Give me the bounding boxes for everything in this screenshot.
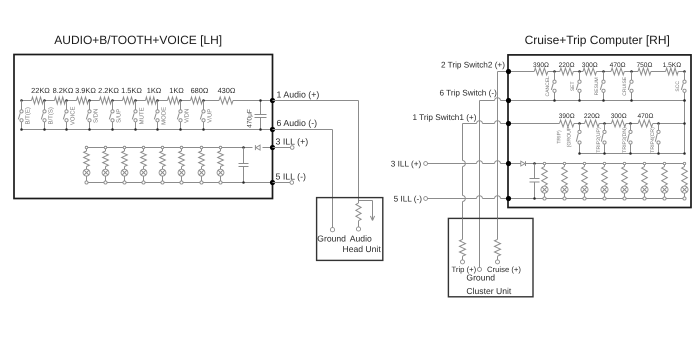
svg-text:220Ω: 220Ω — [584, 113, 600, 120]
connector contact bottom 5 — [161, 181, 164, 184]
cruise illumination LED branch 7 — [661, 164, 668, 199]
svg-text:Audio: Audio — [350, 233, 372, 243]
wire trip return vertical — [684, 101, 686, 154]
resistor 220ohm cruise row — [559, 62, 575, 75]
connector contact top 5 — [161, 146, 164, 149]
illumination LED branch 8 (resistor + bulb) — [217, 148, 224, 183]
resistor cruise signal pull-up — [495, 218, 501, 264]
svg-text:430Ω: 430Ω — [218, 86, 236, 95]
svg-text:1KΩ: 1KΩ — [147, 86, 162, 95]
node audio ladder return 8 — [179, 128, 182, 131]
svg-text:390Ω: 390Ω — [533, 62, 549, 69]
switch CRUISE — [622, 72, 633, 101]
svg-text:2.2KΩ: 2.2KΩ — [98, 86, 119, 95]
illumination LED branch 5 (resistor + bulb) — [159, 148, 166, 183]
node cruise ladder 1 — [553, 70, 556, 73]
svg-text:470Ω: 470Ω — [610, 62, 626, 69]
resistor 390ohm cruise row — [533, 62, 549, 75]
label Ground (cluster) — [466, 272, 495, 282]
connector contact bottom 4 — [142, 181, 145, 184]
switch trip 1 — [556, 124, 581, 154]
cruise connector contact top 3 — [583, 162, 585, 164]
node trip return 3 — [629, 152, 632, 155]
cruise connector contact bottom 2 — [563, 197, 566, 200]
cruise and trip computer switch box [RH] — [508, 55, 691, 208]
switch SCC — [675, 72, 686, 101]
svg-text:SET: SET — [570, 81, 576, 91]
title Cruise+Trip Computer [RH] — [525, 33, 670, 47]
cruise connector contact top 5 — [623, 162, 625, 164]
node cruise return 2 — [578, 99, 581, 102]
svg-text:220Ω: 220Ω — [559, 62, 575, 69]
svg-text:22KΩ: 22KΩ — [31, 86, 50, 95]
svg-text:470μF: 470μF — [247, 109, 254, 128]
label Cluster Unit — [466, 286, 512, 296]
connector contact bottom 6 — [180, 181, 183, 184]
cruise connector contact bottom 6 — [643, 197, 646, 200]
label Trip (+) — [452, 265, 477, 274]
svg-text:3 ILL (+): 3 ILL (+) — [276, 137, 309, 147]
svg-text:S/DN: S/DN — [93, 109, 100, 123]
pin 3 ILL (+) — [270, 137, 308, 150]
illumination LED branch 6 (resistor + bulb) — [178, 148, 185, 183]
cruise connector contact top 7 — [663, 162, 665, 164]
svg-text:V/DN: V/DN — [184, 109, 191, 123]
cruise illumination LED branch 2 — [561, 164, 568, 199]
resistor 470ohm trip row — [637, 113, 653, 127]
svg-text:AUDIO+B/TOOTH+VOICE [LH]: AUDIO+B/TOOTH+VOICE [LH] — [54, 33, 222, 47]
resistor 390ohm trip row — [559, 113, 575, 127]
illumination LED branch 2 (resistor + bulb) — [102, 148, 109, 183]
title AUDIO+B/TOOTH+VOICE [LH] — [54, 33, 222, 47]
connector contact top 2 — [104, 146, 107, 149]
svg-text:470Ω: 470Ω — [637, 113, 653, 120]
node audio ladder junction 1 — [20, 99, 23, 102]
node cruise ladder 5 — [683, 70, 686, 73]
connector contact bottom 7 — [200, 181, 203, 184]
head unit box — [317, 198, 383, 261]
node audio ladder junction 4 — [88, 99, 91, 102]
node cruise ladder 3 — [602, 70, 605, 73]
diode D2 illumination — [521, 161, 526, 166]
label Cruise (+) — [487, 265, 521, 274]
resistor 220ohm trip row — [584, 113, 600, 127]
node audio ladder return 6 — [134, 128, 137, 131]
cruise connector contact top 1 — [543, 162, 545, 164]
resistor 8.2Kohm — [53, 86, 74, 104]
switch MODE — [154, 101, 167, 130]
svg-text:TRIP3(DN): TRIP3(DN) — [622, 127, 628, 153]
node audio ladder junction 3 — [65, 99, 68, 102]
node trip ladder 3 — [629, 122, 632, 125]
wire audio (+) from pin 1 to head unit — [273, 101, 359, 204]
connector contact bottom 3 — [123, 181, 126, 184]
illumination LED branch 3 (resistor + bulb) — [121, 148, 128, 183]
svg-text:MODE: MODE — [161, 107, 168, 125]
pin 1 trip switch1 (+) on cruise box — [506, 121, 511, 126]
resistor 1.5Kohm cruise row — [663, 62, 682, 75]
wire cruise ladder top rail — [509, 71, 685, 73]
switch V/UP — [200, 101, 213, 130]
node cruise return 5 — [683, 99, 686, 102]
node trip ladder 2 — [603, 122, 606, 125]
resistor 1Kohm — [146, 86, 162, 104]
connector contact top 1 — [85, 146, 88, 149]
resistor in head unit (audio input load) — [350, 203, 372, 243]
cluster unit box — [448, 218, 533, 296]
switch B/T(S) — [41, 101, 54, 130]
connector contact top 3 — [123, 146, 126, 149]
cruise connector contact top 6 — [643, 162, 645, 164]
node trip return rail junction — [683, 99, 686, 155]
connector contact top 7 — [200, 146, 203, 149]
node trip ladder 4 — [657, 122, 660, 125]
illumination LED branch 7 (resistor + bulb) — [198, 148, 205, 183]
arrow adjustable marker in head unit — [359, 201, 375, 221]
svg-text:B/T(S): B/T(S) — [48, 107, 55, 124]
switch B/T(E) — [18, 101, 31, 130]
svg-text:6 Audio (-): 6 Audio (-) — [277, 118, 318, 128]
resistor 2.2Kohm — [98, 86, 119, 104]
wire audio resistor ladder top rail — [22, 100, 273, 102]
node illumination capacitor tap — [242, 146, 245, 149]
svg-text:1KΩ: 1KΩ — [169, 86, 184, 95]
pin 2 trip switch2 (+) on cruise box — [506, 69, 511, 74]
node cruise ladder 4 — [630, 70, 633, 73]
svg-text:Cluster Unit: Cluster Unit — [466, 286, 512, 296]
resistor 22Kohm — [31, 86, 50, 104]
resistor 1.5Kohm — [121, 86, 142, 104]
svg-text:1 Audio (+): 1 Audio (+) — [277, 90, 320, 100]
label Head Unit — [343, 244, 382, 254]
svg-text:MUTE: MUTE — [139, 107, 146, 124]
svg-text:8.2KΩ: 8.2KΩ — [53, 86, 74, 95]
switch VOICE — [63, 101, 76, 130]
svg-text:SCC: SCC — [675, 81, 681, 92]
capacitor C3 cruise illumination — [530, 164, 540, 200]
pin 6 trip switch (-) on cruise box — [506, 98, 511, 103]
node audio ladder return 9 — [202, 128, 205, 131]
node trip return 2 — [603, 152, 606, 155]
resistor 1Kohm — [168, 86, 185, 104]
wire trip switch1 (+) net — [463, 121, 509, 219]
svg-text:B/T(E): B/T(E) — [25, 107, 32, 124]
svg-text:Ground: Ground — [466, 272, 495, 282]
wire trip ladder bottom rail — [580, 153, 685, 155]
node audio ladder return 2 — [43, 128, 46, 131]
svg-text:S/UP: S/UP — [116, 109, 123, 123]
wire audio (-) from pin 6 to head unit ground — [273, 130, 333, 228]
node audio ladder return 3 — [65, 128, 68, 131]
wire cruise illumination bottom rail — [509, 198, 685, 200]
svg-text:(GROUP: (GROUP — [566, 126, 572, 147]
svg-text:390Ω: 390Ω — [559, 113, 575, 120]
node audio ladder junction 5 — [111, 99, 114, 102]
svg-text:CANCEL: CANCEL — [545, 76, 551, 97]
node audio ladder return 7 — [156, 128, 159, 131]
cruise connector contact top 2 — [563, 162, 565, 164]
node trip return 1 — [578, 152, 581, 155]
pin 6 Audio (-) — [270, 118, 317, 132]
switch trip 2 — [596, 124, 606, 154]
cruise illumination LED branch 5 — [621, 164, 628, 199]
switch RESUM — [594, 72, 605, 101]
cruise connector contact bottom 1 — [543, 197, 546, 200]
connector contact top 4 — [142, 146, 145, 149]
svg-text:Cruise+Trip Computer [RH]: Cruise+Trip Computer [RH] — [525, 33, 670, 47]
wire illumination top rail — [87, 147, 273, 149]
cruise connector contact bottom 7 — [663, 197, 666, 200]
label 2 Trip Switch2 (+) — [441, 60, 505, 69]
switch trip 4 — [650, 124, 660, 154]
cruise illumination LED branch 4 — [601, 164, 608, 199]
pin 1 Audio (+) — [270, 90, 319, 104]
cruise connector contact bottom 3 — [583, 197, 586, 200]
node cruise ladder 2 — [578, 70, 581, 73]
wire ILL (+) to cruise box — [428, 161, 509, 164]
node cruise return 4 — [630, 99, 633, 102]
wire cruise illumination top rail — [509, 163, 685, 165]
node cruise return 1 — [553, 99, 556, 102]
svg-text:5 ILL (-): 5 ILL (-) — [276, 171, 307, 181]
wire illumination bottom rail — [87, 182, 273, 184]
cruise connector contact bottom 5 — [623, 197, 626, 200]
resistor 680ohm — [191, 86, 209, 104]
cruise connector contact top 8 — [683, 162, 685, 164]
svg-text:1 Trip Switch1 (+): 1 Trip Switch1 (+) — [413, 113, 477, 122]
connector contact bottom 8 — [219, 181, 222, 184]
svg-text:3.9KΩ: 3.9KΩ — [75, 86, 96, 95]
svg-text:CRUISE: CRUISE — [622, 76, 628, 96]
pin 5 ILL (-) on cruise box — [506, 196, 511, 201]
svg-text:V/UP: V/UP — [207, 109, 214, 123]
capacitor C1 470uF — [247, 99, 267, 131]
wire cruise ladder bottom rail (trip switch -) — [509, 100, 685, 102]
illumination LED branch 4 (resistor + bulb) — [140, 148, 147, 183]
cruise illumination LED branch 6 — [641, 164, 648, 199]
cruise illumination LED branch 8 — [681, 164, 688, 199]
svg-text:VOICE: VOICE — [70, 106, 77, 125]
wire trip switch2 (+) net — [498, 72, 509, 219]
switch SET — [570, 72, 581, 101]
resistor trip signal pull-up — [460, 218, 466, 264]
connector 5 ILL (-) right — [394, 194, 428, 203]
svg-text:TRIP4(CR): TRIP4(CR) — [650, 127, 656, 153]
illumination LED branch 1 (resistor + bulb) — [83, 148, 90, 183]
wire trip switch (-) net — [480, 98, 509, 268]
node audio ladder junction 7 — [156, 99, 159, 102]
label 1 Trip Switch1 (+) — [413, 113, 477, 122]
resistor 300ohm cruise row — [582, 62, 598, 75]
switch S/UP — [109, 101, 122, 130]
wire ILL (-) to cruise box — [428, 196, 509, 199]
switch MUTE — [132, 101, 145, 130]
svg-text:1.5KΩ: 1.5KΩ — [663, 62, 682, 69]
connector contact top 6 — [180, 146, 183, 149]
ground terminal in head unit — [317, 228, 346, 244]
svg-text:300Ω: 300Ω — [582, 62, 598, 69]
svg-text:Ground: Ground — [317, 233, 346, 243]
svg-text:6 Trip Switch (-): 6 Trip Switch (-) — [440, 89, 498, 98]
node trip ladder 1 — [578, 122, 581, 125]
node audio ladder junction 6 — [134, 99, 137, 102]
node audio ladder return 1 — [20, 128, 23, 131]
connector contact bottom 1 — [85, 181, 88, 184]
cruise illumination LED branch 1 — [541, 164, 548, 199]
svg-text:Cruise (+): Cruise (+) — [487, 265, 521, 274]
switch CANCEL — [545, 72, 556, 101]
svg-text:Head Unit: Head Unit — [343, 244, 382, 254]
svg-text:3 ILL (+): 3 ILL (+) — [391, 160, 422, 169]
svg-text:TRIP): TRIP) — [556, 130, 562, 144]
pin 5 ILL (-) — [270, 171, 306, 185]
svg-text:680Ω: 680Ω — [191, 86, 209, 95]
svg-text:750Ω: 750Ω — [636, 62, 652, 69]
cruise connector contact bottom 8 — [683, 197, 686, 200]
node audio ladder junction 8 — [179, 99, 182, 102]
cruise illumination LED branch 3 — [581, 164, 588, 199]
resistor 430ohm — [218, 86, 236, 104]
resistor 470ohm cruise row — [610, 62, 626, 75]
svg-text:1.5KΩ: 1.5KΩ — [121, 86, 142, 95]
cruise connector contact top 4 — [603, 162, 605, 164]
diode D1 illumination — [255, 145, 260, 150]
node audio ladder return 5 — [111, 128, 114, 131]
resistor 3.9Kohm — [75, 86, 96, 104]
svg-text:TRIP2(UP): TRIP2(UP) — [596, 127, 602, 153]
svg-text:RESUM: RESUM — [594, 77, 600, 95]
pin 3 ILL (+) on cruise box — [506, 161, 511, 166]
svg-text:5 ILL (-): 5 ILL (-) — [394, 194, 423, 203]
connector contact top 8 — [219, 146, 222, 149]
node audio ladder junction 2 — [43, 99, 46, 102]
svg-text:2 Trip Switch2 (+): 2 Trip Switch2 (+) — [441, 60, 505, 69]
steering wheel remote controller box AUDIO+B/TOOTH+VOICE [LH] — [14, 55, 273, 199]
connector contact bottom 2 — [104, 181, 107, 184]
node audio ladder return 4 — [88, 128, 91, 131]
label 6 Trip Switch (-) — [440, 89, 498, 98]
svg-text:300Ω: 300Ω — [611, 113, 627, 120]
switch V/DN — [177, 101, 190, 130]
connector 3 ILL (+) right — [391, 160, 428, 169]
node trip return 4 — [657, 152, 660, 155]
capacitor C2 illumination filter — [239, 148, 249, 184]
wire audio ladder bottom rail to pin 6 — [22, 129, 273, 131]
switch trip 3 — [622, 124, 632, 154]
node cruise illumination cap tap — [533, 162, 536, 165]
resistor 750ohm cruise row — [636, 62, 652, 75]
node audio ladder junction 9 — [202, 99, 205, 102]
wire trip ladder top rail — [509, 123, 685, 125]
node cruise return 3 — [602, 99, 605, 102]
ground lead in cluster — [478, 267, 482, 271]
cruise connector contact bottom 4 — [603, 197, 606, 200]
switch S/DN — [86, 101, 99, 130]
resistor 300ohm trip row — [611, 113, 627, 127]
